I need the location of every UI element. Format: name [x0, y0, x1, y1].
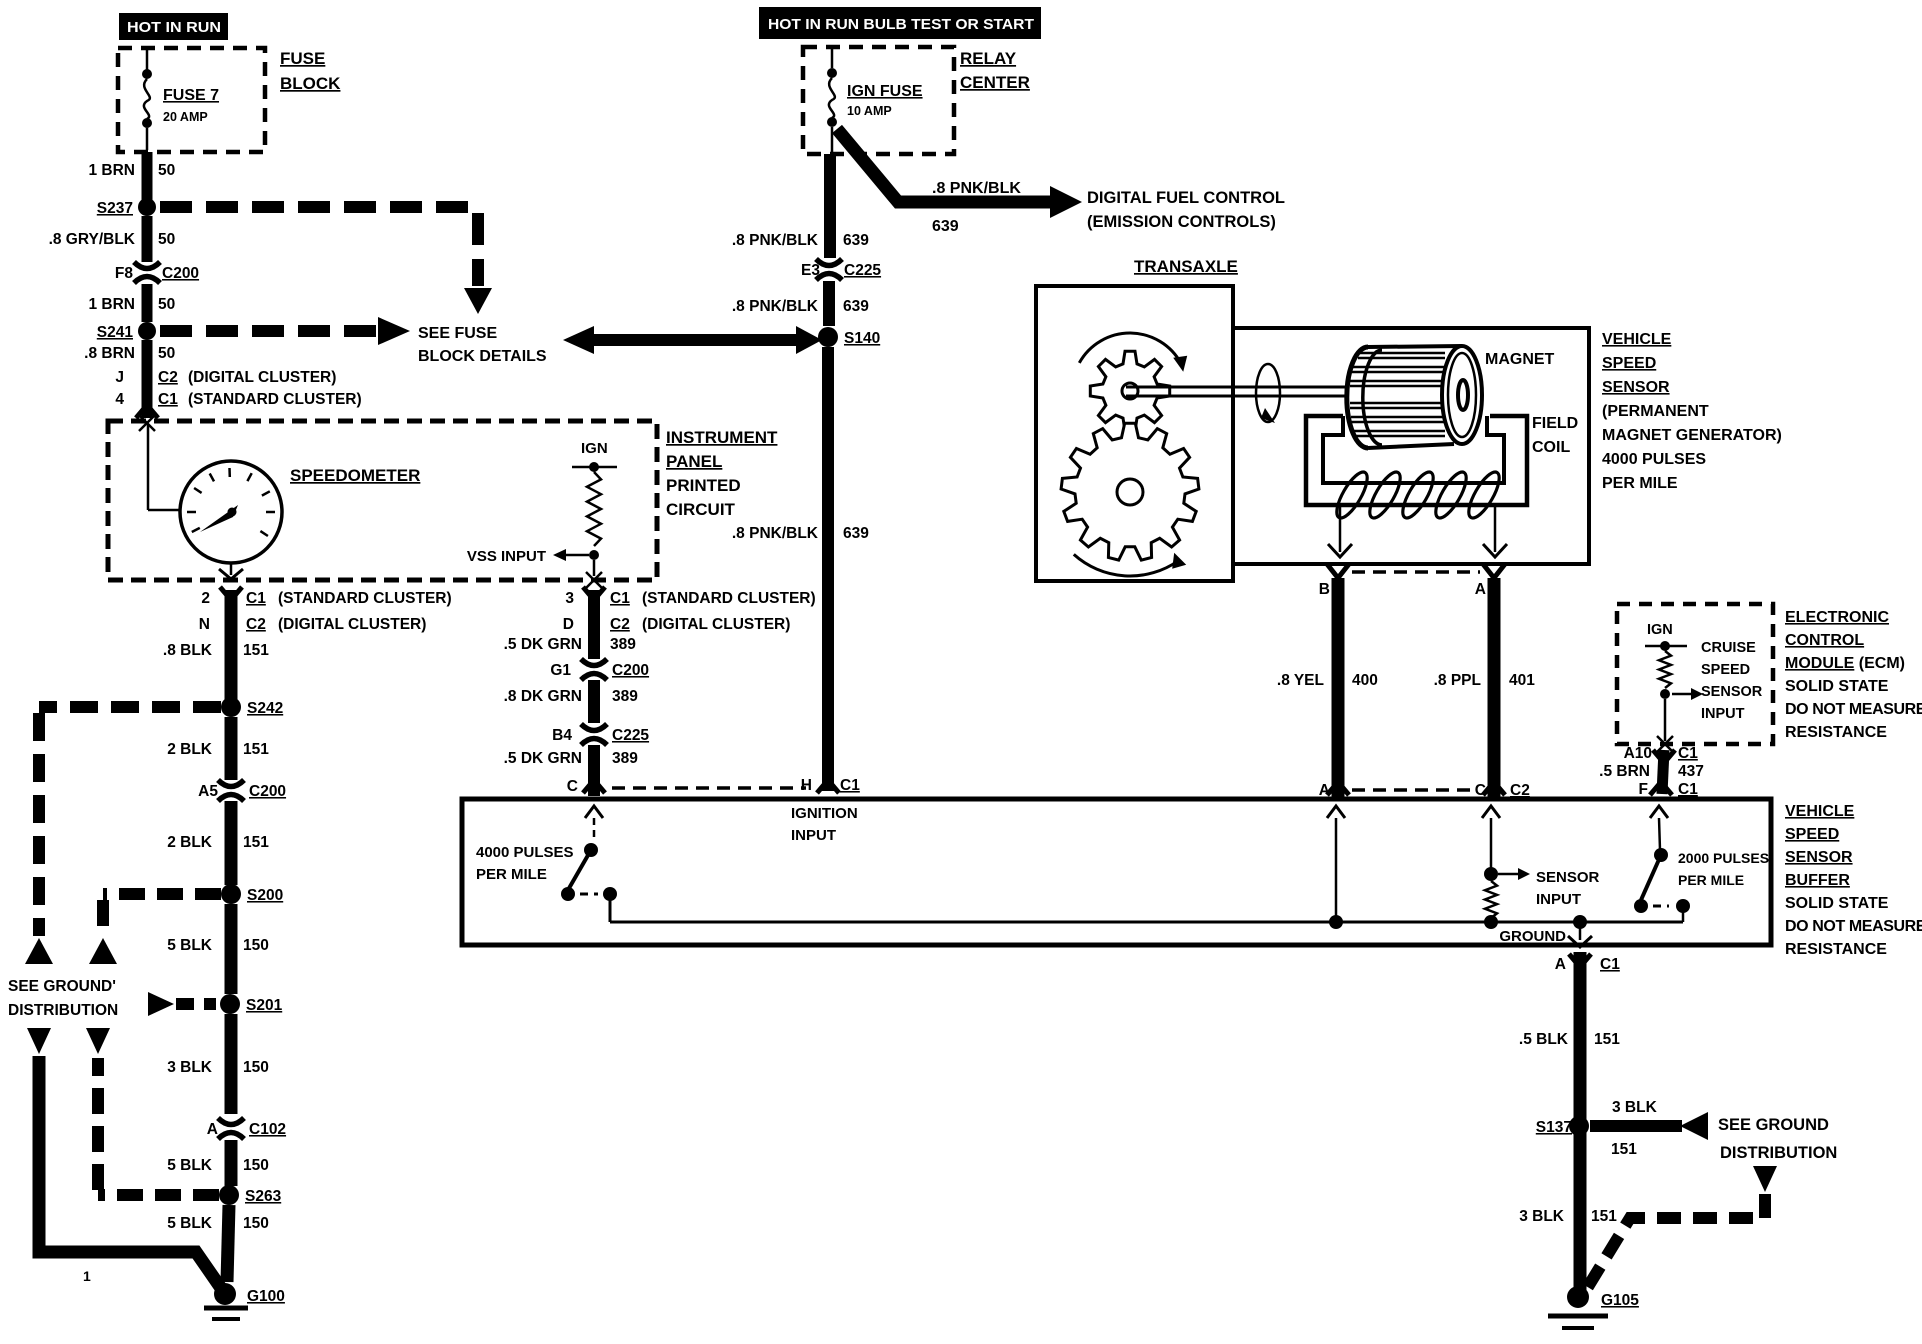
svg-text:CENTER: CENTER	[960, 73, 1030, 92]
svg-text:50: 50	[158, 345, 175, 362]
svg-text:.5 BRN: .5 BRN	[1599, 763, 1650, 780]
svg-text:PER MILE: PER MILE	[1678, 872, 1744, 888]
svg-text:F8: F8	[115, 265, 133, 282]
svg-text:RELAY: RELAY	[960, 49, 1017, 68]
svg-text:CRUISE: CRUISE	[1701, 640, 1756, 656]
svg-text:2 BLK: 2 BLK	[167, 741, 213, 758]
svg-text:FUSE 7: FUSE 7	[163, 87, 219, 104]
svg-text:E3: E3	[801, 262, 820, 279]
svg-text:5 BLK: 5 BLK	[167, 937, 213, 954]
svg-text:INPUT: INPUT	[1536, 891, 1581, 908]
svg-text:SEE GROUND: SEE GROUND	[1718, 1116, 1829, 1134]
svg-text:A: A	[1475, 581, 1486, 598]
svg-text:F: F	[1639, 781, 1648, 798]
svg-text:BLOCK DETAILS: BLOCK DETAILS	[418, 348, 547, 365]
svg-text:SENSOR: SENSOR	[1602, 379, 1670, 396]
svg-text:PANEL: PANEL	[666, 452, 722, 471]
svg-text:S241: S241	[97, 324, 134, 341]
svg-text:.8 PNK/BLK: .8 PNK/BLK	[732, 232, 819, 249]
svg-text:SPEEDOMETER: SPEEDOMETER	[290, 466, 420, 485]
svg-text:C1: C1	[246, 590, 266, 607]
svg-text:389: 389	[610, 636, 636, 653]
svg-text:150: 150	[243, 1059, 269, 1076]
svg-text:.8 GRY/BLK: .8 GRY/BLK	[49, 231, 136, 248]
svg-text:VEHICLE: VEHICLE	[1785, 803, 1855, 820]
svg-text:.8 PNK/BLK: .8 PNK/BLK	[932, 180, 1021, 197]
svg-text:.5 DK GRN: .5 DK GRN	[504, 750, 582, 767]
svg-text:.8 PPL: .8 PPL	[1434, 672, 1481, 689]
svg-text:(EMISSION CONTROLS): (EMISSION CONTROLS)	[1087, 213, 1276, 231]
svg-text:INPUT: INPUT	[1701, 706, 1745, 722]
svg-text:SPEED: SPEED	[1701, 662, 1750, 678]
svg-text:TRANSAXLE: TRANSAXLE	[1134, 257, 1238, 276]
svg-text:SPEED: SPEED	[1785, 826, 1839, 843]
svg-text:639: 639	[843, 298, 869, 315]
svg-text:(DIGITAL CLUSTER): (DIGITAL CLUSTER)	[278, 616, 426, 633]
svg-text:3 BLK: 3 BLK	[1519, 1208, 1565, 1225]
svg-text:.8 PNK/BLK: .8 PNK/BLK	[732, 298, 819, 315]
svg-text:20 AMP: 20 AMP	[163, 110, 208, 124]
svg-text:C2: C2	[158, 369, 178, 386]
svg-text:HOT IN RUN BULB TEST OR START: HOT IN RUN BULB TEST OR START	[768, 16, 1034, 33]
svg-text:BLOCK: BLOCK	[280, 74, 341, 93]
svg-text:2 BLK: 2 BLK	[167, 834, 213, 851]
svg-text:G1: G1	[550, 662, 571, 679]
svg-text:C200: C200	[249, 783, 286, 800]
svg-text:IGN FUSE: IGN FUSE	[847, 83, 923, 100]
svg-text:CIRCUIT: CIRCUIT	[666, 500, 736, 519]
svg-text:COIL: COIL	[1532, 439, 1570, 456]
svg-text:S137: S137	[1536, 1119, 1572, 1136]
svg-text:DO NOT MEASURE: DO NOT MEASURE	[1785, 701, 1922, 718]
svg-text:151: 151	[243, 834, 269, 851]
svg-text:150: 150	[243, 937, 269, 954]
svg-text:SEE GROUND': SEE GROUND'	[8, 978, 116, 995]
svg-text:.8 BRN: .8 BRN	[84, 345, 135, 362]
svg-text:400: 400	[1352, 672, 1378, 689]
svg-text:.5 DK GRN: .5 DK GRN	[504, 636, 582, 653]
svg-text:C102: C102	[249, 1121, 286, 1138]
svg-text:.8 BLK: .8 BLK	[163, 642, 213, 659]
svg-text:C1: C1	[1678, 781, 1698, 798]
svg-text:3: 3	[565, 590, 574, 607]
svg-text:G100: G100	[247, 1288, 285, 1305]
svg-text:2: 2	[201, 590, 210, 607]
svg-text:3 BLK: 3 BLK	[1612, 1099, 1658, 1116]
svg-text:S201: S201	[246, 997, 283, 1014]
svg-text:151: 151	[1611, 1141, 1637, 1158]
svg-text:D: D	[563, 616, 574, 633]
svg-text:1 BRN: 1 BRN	[88, 162, 135, 179]
svg-text:SOLID STATE: SOLID STATE	[1785, 895, 1889, 912]
svg-text:(DIGITAL CLUSTER): (DIGITAL CLUSTER)	[188, 369, 336, 386]
svg-text:IGN: IGN	[1647, 622, 1673, 638]
svg-text:10 AMP: 10 AMP	[847, 104, 892, 118]
svg-text:50: 50	[158, 296, 175, 313]
svg-text:S263: S263	[245, 1188, 282, 1205]
svg-text:B4: B4	[552, 727, 572, 744]
svg-text:151: 151	[1591, 1208, 1617, 1225]
svg-text:C2: C2	[1510, 782, 1530, 799]
svg-text:B: B	[1319, 581, 1330, 598]
svg-text:ELECTRONIC: ELECTRONIC	[1785, 609, 1889, 626]
svg-text:3 BLK: 3 BLK	[167, 1059, 213, 1076]
svg-text:PER MILE: PER MILE	[1602, 475, 1678, 492]
svg-text:IGN: IGN	[581, 440, 608, 457]
svg-text:DIGITAL FUEL CONTROL: DIGITAL FUEL CONTROL	[1087, 189, 1285, 207]
svg-text:639: 639	[843, 525, 869, 542]
svg-text:C1: C1	[610, 590, 630, 607]
svg-text:150: 150	[243, 1157, 269, 1174]
svg-text:SENSOR: SENSOR	[1701, 684, 1763, 700]
svg-text:S200: S200	[247, 887, 283, 904]
svg-text:A: A	[1555, 956, 1566, 973]
svg-text:A: A	[207, 1121, 218, 1138]
svg-text:SOLID STATE: SOLID STATE	[1785, 678, 1889, 695]
svg-text:GROUND: GROUND	[1499, 928, 1566, 945]
svg-text:151: 151	[243, 642, 269, 659]
svg-text:INSTRUMENT: INSTRUMENT	[666, 428, 778, 447]
svg-text:C1: C1	[1600, 956, 1620, 973]
svg-text:5 BLK: 5 BLK	[167, 1215, 213, 1232]
svg-text:DISTRIBUTION: DISTRIBUTION	[8, 1002, 118, 1019]
svg-text:(STANDARD CLUSTER): (STANDARD CLUSTER)	[188, 391, 362, 408]
svg-text:4000 PULSES: 4000 PULSES	[1602, 451, 1706, 468]
svg-text:401: 401	[1509, 672, 1535, 689]
svg-text:A: A	[1319, 782, 1330, 799]
svg-text:C225: C225	[612, 727, 649, 744]
svg-text:C1: C1	[1678, 745, 1698, 762]
svg-text:H: H	[801, 777, 812, 794]
svg-text:(DIGITAL CLUSTER): (DIGITAL CLUSTER)	[642, 616, 790, 633]
svg-text:(STANDARD CLUSTER): (STANDARD CLUSTER)	[278, 590, 452, 607]
svg-text:151: 151	[1594, 1031, 1620, 1048]
svg-text:FUSE: FUSE	[280, 49, 325, 68]
svg-text:C: C	[567, 778, 578, 795]
svg-text:.8 PNK/BLK: .8 PNK/BLK	[732, 525, 819, 542]
svg-text:VSS INPUT: VSS INPUT	[467, 548, 546, 565]
svg-text:SPEED: SPEED	[1602, 355, 1656, 372]
svg-text:RESISTANCE: RESISTANCE	[1785, 941, 1887, 958]
svg-text:639: 639	[932, 218, 959, 235]
svg-text:G105: G105	[1601, 1292, 1639, 1309]
svg-text:C: C	[1475, 782, 1486, 799]
svg-text:389: 389	[612, 750, 638, 767]
svg-text:PER MILE: PER MILE	[476, 866, 547, 883]
svg-text:639: 639	[843, 232, 869, 249]
svg-text:SENSOR: SENSOR	[1536, 869, 1600, 886]
svg-text:DISTRIBUTION: DISTRIBUTION	[1720, 1144, 1837, 1162]
svg-text:.8 DK GRN: .8 DK GRN	[504, 688, 582, 705]
svg-text:C1: C1	[840, 777, 860, 794]
svg-text:151: 151	[243, 741, 269, 758]
svg-text:INPUT: INPUT	[791, 827, 836, 844]
svg-text:SEE FUSE: SEE FUSE	[418, 325, 497, 342]
svg-text:IGNITION: IGNITION	[791, 805, 858, 822]
svg-text:C200: C200	[162, 265, 199, 282]
svg-text:437: 437	[1678, 763, 1704, 780]
svg-text:.8 YEL: .8 YEL	[1277, 672, 1324, 689]
svg-text:HOT IN RUN: HOT IN RUN	[127, 19, 221, 36]
svg-text:C225: C225	[844, 262, 881, 279]
svg-text:1: 1	[83, 1268, 91, 1284]
svg-text:C200: C200	[612, 662, 649, 679]
svg-text:FIELD: FIELD	[1532, 415, 1578, 432]
svg-text:N: N	[199, 616, 210, 633]
svg-text:(STANDARD CLUSTER): (STANDARD CLUSTER)	[642, 590, 816, 607]
svg-text:MODULE (ECM): MODULE (ECM)	[1785, 655, 1905, 672]
svg-text:MAGNET GENERATOR): MAGNET GENERATOR)	[1602, 427, 1782, 444]
svg-text:5 BLK: 5 BLK	[167, 1157, 213, 1174]
svg-text:(PERMANENT: (PERMANENT	[1602, 403, 1709, 420]
svg-text:S237: S237	[97, 200, 133, 217]
svg-text:S140: S140	[844, 330, 880, 347]
svg-text:DO NOT MEASURE: DO NOT MEASURE	[1785, 918, 1922, 935]
svg-text:S242: S242	[247, 700, 283, 717]
svg-text:J: J	[115, 369, 124, 386]
svg-text:PRINTED: PRINTED	[666, 476, 741, 495]
svg-text:4: 4	[115, 391, 124, 408]
svg-text:VEHICLE: VEHICLE	[1602, 331, 1672, 348]
svg-text:MAGNET: MAGNET	[1485, 351, 1555, 368]
svg-text:50: 50	[158, 162, 175, 179]
svg-text:389: 389	[612, 688, 638, 705]
svg-text:4000 PULSES: 4000 PULSES	[476, 844, 574, 861]
svg-text:C1: C1	[158, 391, 178, 408]
svg-text:.5 BLK: .5 BLK	[1519, 1031, 1569, 1048]
svg-text:150: 150	[243, 1215, 269, 1232]
svg-text:2000 PULSES: 2000 PULSES	[1678, 850, 1769, 866]
svg-text:50: 50	[158, 231, 175, 248]
svg-text:1 BRN: 1 BRN	[88, 296, 135, 313]
svg-text:BUFFER: BUFFER	[1785, 872, 1850, 889]
svg-text:A5: A5	[198, 783, 218, 800]
svg-text:C2: C2	[246, 616, 266, 633]
svg-text:A10: A10	[1624, 745, 1652, 762]
svg-text:CONTROL: CONTROL	[1785, 632, 1864, 649]
svg-text:RESISTANCE: RESISTANCE	[1785, 724, 1887, 741]
svg-text:C2: C2	[610, 616, 630, 633]
svg-text:SENSOR: SENSOR	[1785, 849, 1853, 866]
